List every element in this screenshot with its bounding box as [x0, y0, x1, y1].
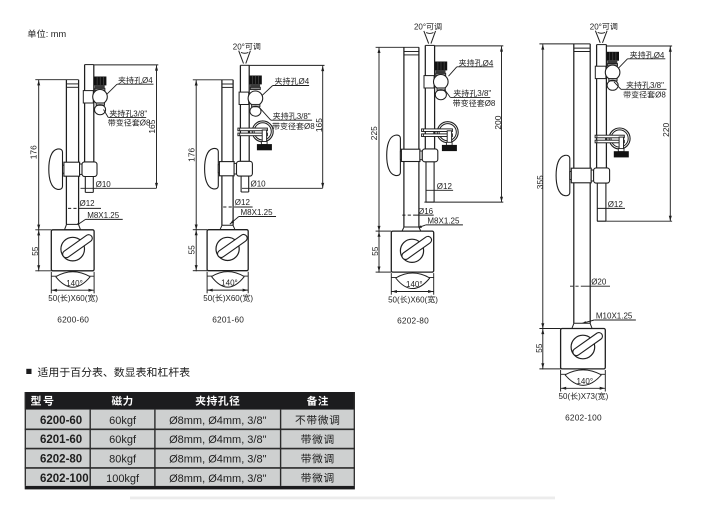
3/8 inch hole ring 6202-80	[435, 90, 446, 100]
svg-text:): )	[435, 295, 438, 304]
magnetic base box 6201-60	[207, 230, 248, 271]
svg-text:60kgf: 60kgf	[109, 415, 137, 427]
dimension 176 (left height) 6201-60	[187, 80, 233, 271]
svg-text:Ø12: Ø12	[608, 200, 624, 209]
magnet switch circle 6200-60	[61, 237, 85, 261]
svg-text:3/8": 3/8"	[297, 112, 311, 121]
svg-text:220: 220	[661, 122, 671, 136]
gauge clamp body 6201-60	[239, 92, 249, 104]
label Ø10 (rod dia) 6201-60	[242, 180, 323, 189]
svg-text:6201-60: 6201-60	[212, 314, 244, 324]
svg-text:)X60(: )X60(	[223, 294, 243, 303]
V-groove arcs 140° 6201-60	[207, 272, 248, 288]
label 20°可调 (swivel) 6202-80	[414, 23, 441, 44]
svg-text:Ø8mm, Ø4mm, 3/8": Ø8mm, Ø4mm, 3/8"	[169, 473, 267, 485]
gauge clamp knurled knob 6201-60	[249, 76, 261, 90]
rod lower stub 6200-60	[85, 176, 93, 192]
svg-text:140°: 140°	[221, 279, 238, 288]
magnet switch circle 6201-60	[216, 237, 239, 260]
svg-text:: mm: : mm	[46, 29, 67, 39]
label Ø12 (pole dia) 6201-60	[223, 198, 252, 207]
swivel clamp knob 6200-60	[49, 149, 63, 189]
swivel clamp sleeve 6201-60	[234, 161, 252, 176]
svg-text:Ø8mm, Ø4mm, 3/8": Ø8mm, Ø4mm, 3/8"	[169, 454, 267, 466]
svg-text:)X73(: )X73(	[578, 392, 598, 401]
dimension 355 (left height) 6202-100	[535, 44, 590, 370]
svg-text:200: 200	[493, 115, 503, 129]
svg-text:55: 55	[186, 245, 196, 255]
gauge clamp body 6202-80	[424, 76, 434, 88]
table row 6201-60	[40, 434, 333, 446]
gauge clamp lower collar 6201-60	[252, 104, 260, 106]
fine adjustment clamp bars 6202-80	[422, 129, 453, 137]
mounting thread stub 6201-60	[220, 225, 235, 229]
gauge clamp knurled knob 6200-60	[94, 77, 106, 91]
dimension 55 (base height) 6202-100	[534, 329, 560, 369]
swivel clamp knob 6201-60	[205, 148, 219, 188]
faint scan shadow under table	[130, 497, 555, 500]
extension line bottom of 220 dim 6202-100	[597, 220, 672, 222]
svg-text:140°: 140°	[66, 279, 83, 288]
svg-text:55: 55	[370, 246, 380, 256]
dimension 225 (left height) 6202-80	[369, 47, 419, 272]
extension line bottom of 200 dim 6202-80	[424, 201, 503, 203]
magnetic base box 6202-100	[561, 329, 606, 369]
gauge clamp lower collar 6202-100	[609, 79, 617, 81]
model number 6200-60	[57, 314, 89, 324]
svg-text:55: 55	[534, 343, 544, 353]
label Ø12 (pole dia) 6200-60	[68, 199, 101, 208]
svg-text:Ø12: Ø12	[80, 199, 96, 208]
svg-text:): )	[95, 294, 98, 303]
swivel clamp shaft 6200-60	[63, 165, 67, 173]
swivel clamp sleeve 6202-80	[420, 149, 438, 162]
svg-text:20°: 20°	[233, 42, 245, 51]
vertical rod 6202-100	[597, 45, 607, 169]
label M8X1.25 (mount thread) 6201-60	[229, 208, 276, 225]
label 夹持孔3/8"	[614, 81, 667, 90]
svg-text:50(: 50(	[203, 294, 215, 303]
model number 6202-100	[565, 413, 602, 423]
label 夹持孔3/8"	[104, 109, 148, 118]
fine adjustment clamp bars 6202-100	[595, 135, 624, 143]
svg-text:M8X1.25: M8X1.25	[241, 208, 274, 217]
svg-text:M8X1.25: M8X1.25	[427, 216, 460, 225]
fine adjustment screw shaft 6201-60	[261, 130, 267, 145]
dimension 50(长)X60(宽) 6200-60	[48, 272, 98, 303]
mounting thread stub 6202-100	[572, 323, 592, 328]
mounting thread stub 6202-80	[402, 227, 421, 231]
swivel clamp shaft 6202-100	[570, 172, 574, 180]
svg-text:Ø8mm, Ø4mm, 3/8": Ø8mm, Ø4mm, 3/8"	[169, 415, 267, 427]
svg-text:M10X1.25: M10X1.25	[596, 312, 633, 321]
table grid lines	[25, 392, 355, 486]
dimension 165 (rod span) 6201-60	[249, 65, 324, 188]
dimension 55 (base height) 6200-60	[30, 230, 51, 271]
fine adjustment wheel 6202-100	[609, 128, 630, 149]
gauge clamp body 6200-60	[83, 91, 93, 103]
gauge clamp screw circle (夹持孔Ø4) 6202-80	[434, 75, 449, 90]
dimension 55 (base height) 6201-60	[186, 230, 207, 271]
svg-text:Ø12: Ø12	[235, 198, 251, 207]
label 带变径套Ø8	[624, 91, 667, 100]
rod lower stub 6201-60	[241, 176, 249, 192]
label 带变径套Ø8	[453, 99, 496, 108]
label Ø10 (rod dia) 6200-60	[81, 180, 157, 189]
label 带变径套Ø8	[272, 122, 315, 131]
svg-text:Ø8: Ø8	[655, 91, 666, 100]
3/8 inch hole ring 6201-60	[250, 106, 261, 116]
swivel clamp sleeve 6202-100	[591, 168, 609, 183]
svg-text:6200-60: 6200-60	[57, 314, 89, 324]
svg-text:)X60(: )X60(	[408, 295, 428, 304]
svg-text:60kgf: 60kgf	[109, 434, 137, 446]
svg-text:Ø8mm, Ø4mm, 3/8": Ø8mm, Ø4mm, 3/8"	[169, 434, 267, 446]
label 夹持孔Ø4 6202-100	[619, 51, 665, 68]
gauge clamp screw circle (夹持孔Ø4) 6201-60	[248, 91, 263, 106]
gauge clamp screw circle (夹持孔Ø4) 6200-60	[93, 90, 108, 105]
3/8 inch hole ring 6202-100	[607, 80, 618, 90]
model number 6201-60	[212, 314, 244, 324]
label M8X1.25 (mount thread) 6202-80	[417, 216, 463, 229]
model number 6202-80	[397, 316, 429, 326]
gauge clamp knurled knob 6202-100	[607, 52, 619, 66]
label Ø12 (rod dia) 6202-80	[426, 182, 453, 191]
svg-text:140°: 140°	[406, 280, 423, 289]
svg-text:Ø8: Ø8	[304, 122, 315, 131]
magnet switch lever 6202-100	[571, 331, 603, 357]
V-groove arcs 140° 6202-80	[391, 273, 433, 289]
title 单位: mm	[28, 29, 67, 39]
fine adjustment knurled knob 6201-60	[257, 144, 272, 150]
V-groove arcs 140° 6200-60	[51, 272, 94, 288]
svg-text:20°: 20°	[414, 23, 426, 32]
svg-text:6201-60: 6201-60	[40, 434, 82, 446]
svg-text:Ø10: Ø10	[251, 180, 267, 189]
swivel clamp sleeve 6200-60	[80, 162, 97, 177]
label 20°可调 (swivel) 6202-100	[590, 22, 617, 43]
label 带变径套Ø8	[108, 119, 151, 128]
table row 6200-60	[40, 415, 339, 427]
label M8X1.25 (mount thread) 6200-60	[74, 211, 123, 228]
fine adjustment knurled knob 6202-80	[442, 145, 457, 151]
dimension 165 (rod span) 6200-60	[94, 65, 159, 188]
magnetic base box 6200-60	[51, 230, 94, 271]
svg-text:55: 55	[30, 246, 40, 256]
pole column 6200-60	[66, 80, 78, 225]
swivel clamp knob 6202-80	[387, 135, 401, 175]
svg-text:140°: 140°	[576, 377, 593, 386]
swivel clamp knob 6202-100	[556, 155, 570, 195]
dimension 50(长)X60(宽) 6202-80	[388, 273, 438, 304]
table row 6202-80	[40, 454, 333, 466]
svg-text:Ø10: Ø10	[96, 180, 112, 189]
svg-text:3/8": 3/8"	[477, 89, 491, 98]
gauge clamp lower collar 6202-80	[437, 88, 445, 90]
3/8 inch hole ring 6200-60	[95, 105, 106, 115]
svg-text:80kgf: 80kgf	[109, 454, 137, 466]
rod lower stub 6202-100	[597, 183, 606, 221]
fine adjustment wheel 6202-80	[437, 122, 458, 143]
fine adjustment knurled knob 6202-100	[614, 151, 629, 157]
swivel clamp shaft 6202-80	[400, 151, 404, 159]
label 夹持孔3/8"	[444, 89, 491, 98]
svg-text:Ø8: Ø8	[485, 99, 496, 108]
dimension 200 (rod span) 6202-80	[435, 46, 504, 202]
svg-text:): )	[250, 294, 253, 303]
dimension 55 (base height) 6202-80	[370, 231, 391, 272]
svg-text:3/8": 3/8"	[650, 81, 664, 90]
svg-text:165: 165	[314, 118, 324, 132]
magnet switch lever 6200-60	[61, 233, 93, 259]
swivel clamp body 6200-60	[64, 162, 80, 176]
svg-text:176: 176	[187, 147, 197, 161]
gauge clamp screw circle (夹持孔Ø4) 6202-100	[605, 65, 620, 80]
fine adjustment screw shaft 6202-100	[618, 137, 624, 152]
magnet switch circle 6202-80	[400, 239, 423, 262]
magnet switch circle 6202-100	[571, 335, 595, 359]
vertical rod 6202-80	[425, 45, 434, 149]
gauge clamp lower collar 6200-60	[96, 103, 104, 105]
vertical rod 6201-60	[240, 65, 249, 161]
svg-text:6202-80: 6202-80	[40, 454, 82, 466]
label Ø16 (pole dia) 6202-80	[402, 207, 433, 216]
svg-text:100kgf: 100kgf	[106, 473, 140, 485]
gauge clamp body 6202-100	[595, 66, 606, 78]
bullet square	[26, 369, 31, 374]
swivel clamp body 6201-60	[219, 162, 234, 176]
magnetic base box 6202-80	[391, 231, 433, 272]
label M10X1.25 (mount thread) 6202-100	[581, 312, 636, 325]
note 适用于百分表、数显表和杠杆表	[38, 367, 190, 377]
svg-text:Ø20: Ø20	[591, 277, 607, 286]
dimension 220 (rod span) 6202-100	[606, 46, 672, 221]
svg-text:225: 225	[369, 126, 379, 140]
rod lower stub 6202-80	[426, 162, 434, 203]
magnet switch lever 6202-80	[401, 235, 433, 261]
fine adjustment wheel 6201-60	[252, 121, 273, 142]
label 夹持孔3/8"	[260, 108, 312, 121]
label 夹持孔Ø4 6201-60	[262, 77, 309, 95]
svg-text:)X60(: )X60(	[68, 294, 88, 303]
svg-text:6202-100: 6202-100	[565, 413, 602, 423]
pole column 6202-100	[574, 44, 590, 323]
fine adjustment screw shaft 6202-80	[446, 131, 452, 146]
svg-text:): )	[606, 392, 609, 401]
fine adjustment clamp bars 6201-60	[238, 128, 268, 136]
swivel clamp body 6202-80	[401, 149, 420, 161]
svg-text:50(: 50(	[559, 392, 571, 401]
svg-text:20°: 20°	[590, 22, 602, 31]
V-groove arcs 140° 6202-100	[561, 370, 606, 386]
magnet switch lever 6201-60	[216, 233, 248, 259]
mounting thread stub 6200-60	[65, 224, 81, 229]
svg-text:Ø8: Ø8	[140, 119, 151, 128]
svg-text:50(: 50(	[388, 295, 400, 304]
swivel clamp shaft 6201-60	[218, 165, 222, 173]
dimension 50(长)X73(宽) 6202-100	[559, 370, 609, 401]
label 夹持孔Ø4 6202-80	[449, 59, 494, 76]
swivel clamp body 6202-100	[571, 168, 591, 183]
label Ø12 (rod dia) 6202-100	[597, 200, 625, 209]
pole column 6201-60	[222, 80, 233, 226]
gauge clamp knurled knob 6202-80	[435, 62, 447, 76]
svg-text:M8X1.25: M8X1.25	[87, 211, 120, 220]
svg-text:355: 355	[535, 175, 545, 189]
table header row	[25, 392, 355, 410]
dimension 50(长)X60(宽) 6201-60	[203, 272, 253, 303]
svg-text:50(: 50(	[48, 294, 60, 303]
table bottom border	[25, 486, 355, 490]
pole column 6202-80	[404, 47, 419, 227]
svg-text:6200-60: 6200-60	[40, 415, 82, 427]
label Ø20 (pole dia) 6202-100	[570, 277, 610, 286]
label 夹持孔Ø4 6200-60	[107, 76, 154, 94]
label 20°可调 (swivel) 6201-60	[233, 42, 260, 63]
table cell background	[25, 410, 355, 486]
svg-text:176: 176	[29, 145, 39, 159]
table row 6202-100	[40, 473, 333, 485]
dimension 176 (left height) 6200-60	[29, 80, 79, 272]
vertical rod 6200-60	[85, 65, 94, 163]
svg-text:Ø4: Ø4	[299, 77, 310, 86]
svg-text:6202-100: 6202-100	[40, 473, 89, 485]
svg-text:6202-80: 6202-80	[397, 316, 429, 326]
